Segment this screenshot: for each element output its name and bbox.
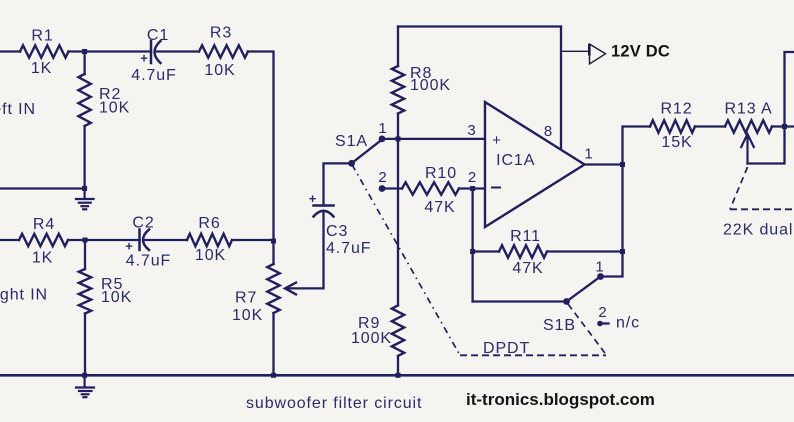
S1B pole contact <box>563 298 570 305</box>
S1B n/c contact 2 <box>597 321 603 327</box>
wire R11 right to output branch <box>547 250 623 252</box>
resistor R9 <box>392 305 404 356</box>
12V DC tap line <box>561 50 589 52</box>
wire C2 to R6 <box>145 239 187 241</box>
svg-text:47K: 47K <box>512 260 543 277</box>
svg-text:4.7uF: 4.7uF <box>126 253 171 270</box>
wire R12 to R13 <box>695 125 725 127</box>
S1A contact 2 <box>379 185 386 192</box>
capacitor C2 <box>140 230 150 251</box>
S1B contact 1 <box>597 273 604 280</box>
svg-text:Right IN: Right IN <box>0 287 48 304</box>
wire R6 to node <box>232 239 274 241</box>
dashed DPDT link S1B <box>568 304 606 355</box>
node junction 1 R8/R9 <box>396 136 401 141</box>
svg-text:R12: R12 <box>660 101 692 118</box>
wire node 1 to op-amp pin 3 <box>382 138 485 140</box>
svg-text:100K: 100K <box>351 330 392 347</box>
node junction R7 bus <box>271 373 276 378</box>
svg-text:C3: C3 <box>326 223 348 240</box>
wire R5 top stub <box>84 240 86 269</box>
svg-text:+: + <box>309 191 318 206</box>
node junction R5 bus <box>82 373 87 378</box>
svg-text:n/c: n/c <box>616 315 640 332</box>
wire R8 bottom to node 1 and down to R9 <box>397 114 399 306</box>
dashed link to R13 B <box>730 208 794 210</box>
node junction R4/R5 <box>83 238 88 243</box>
wire op-amp pin 8 <box>560 27 562 151</box>
svg-text:10K: 10K <box>99 100 130 117</box>
switch S1B lever <box>567 277 601 302</box>
svg-text:1K: 1K <box>32 250 53 267</box>
svg-text:3: 3 <box>467 122 476 139</box>
svg-text:R7: R7 <box>235 290 257 307</box>
wire R10 to op-amp pin 2 <box>459 187 485 189</box>
svg-text:1K: 1K <box>31 60 52 77</box>
svg-text:8: 8 <box>544 123 553 140</box>
wire right input <box>0 239 19 241</box>
wire S1B pole to feedback branch <box>473 300 567 302</box>
svg-text:IC1A: IC1A <box>496 152 535 169</box>
node junction R1/R2 <box>82 49 87 54</box>
svg-text:R11: R11 <box>510 228 541 245</box>
op-amp U1 IC1A triangle <box>485 102 585 227</box>
svg-text:1: 1 <box>378 120 387 137</box>
svg-text:1: 1 <box>595 259 604 276</box>
svg-text:S1A: S1A <box>335 133 368 150</box>
wire R2 bottom <box>83 126 85 189</box>
svg-text:R3: R3 <box>210 25 232 42</box>
wire R7 bottom <box>272 313 274 375</box>
op-amp minus sign <box>491 187 501 189</box>
wire R5 bottom <box>84 314 86 376</box>
svg-text:100K: 100K <box>410 77 451 94</box>
node junction output <box>620 162 625 167</box>
svg-text:1: 1 <box>584 146 593 163</box>
ground G2 <box>76 375 94 397</box>
resistor R11 <box>499 245 547 257</box>
svg-text:C1: C1 <box>147 27 169 44</box>
S1A contact 1 <box>379 136 386 143</box>
switch S1A lever <box>352 140 382 164</box>
wire C3 top to S1A pole <box>324 163 352 205</box>
wire op-amp output <box>585 163 623 165</box>
resistor R6 <box>187 234 232 246</box>
node junction ground rail <box>82 186 87 191</box>
potentiometer R7 <box>267 264 279 313</box>
potentiometer R13 A <box>725 120 772 132</box>
wire R9 bottom <box>397 356 399 375</box>
svg-text:2: 2 <box>468 169 477 186</box>
resistor R3 <box>199 45 248 57</box>
svg-text:10K: 10K <box>101 289 132 306</box>
svg-text:+: + <box>125 239 134 254</box>
capacitor C3 <box>314 206 334 217</box>
wire C3 bottom to R7 wiper <box>288 212 324 288</box>
capacitor C1 <box>151 41 161 63</box>
svg-text:10K: 10K <box>204 62 235 79</box>
svg-text:2: 2 <box>598 304 607 321</box>
R7 wiper arrowhead <box>285 283 296 295</box>
12V DC arrow base bar <box>588 44 591 56</box>
svg-text:12V DC: 12V DC <box>611 43 670 61</box>
node junction R13 right <box>782 124 787 129</box>
svg-text:C2: C2 <box>132 215 154 232</box>
ground bus bottom <box>0 374 794 377</box>
wire supply rail top <box>398 25 561 27</box>
dashed DPDT box bottom <box>460 354 606 356</box>
svg-text:2: 2 <box>378 169 387 186</box>
svg-text:R13 A: R13 A <box>724 101 772 118</box>
svg-text:subwoofer filter circuit: subwoofer filter circuit <box>246 395 422 412</box>
resistor R10 <box>402 182 459 194</box>
svg-text:S1B: S1B <box>543 317 576 334</box>
node junction R11 left <box>470 249 475 254</box>
wire left input top <box>0 50 20 52</box>
S1A pole contact <box>348 160 355 167</box>
wire C1 to R3 <box>157 50 200 52</box>
svg-text:it-tronics.blogspot.com: it-tronics.blogspot.com <box>466 390 655 409</box>
svg-text:+: + <box>140 51 149 66</box>
wire output down to S1B <box>601 165 623 277</box>
ground G1 <box>76 189 94 210</box>
wire to R11 left <box>473 250 499 252</box>
wire top right corner <box>748 52 794 164</box>
svg-text:10K: 10K <box>195 247 226 264</box>
wire input ground rail <box>0 187 85 189</box>
R13 wiper with arrowhead <box>741 134 754 164</box>
svg-text:R1: R1 <box>31 28 53 45</box>
svg-text:15K: 15K <box>661 134 692 151</box>
resistor R5 <box>79 269 91 314</box>
resistor R4 <box>19 234 68 246</box>
node junction R11 right <box>620 249 625 254</box>
wire R8 top stub <box>397 27 399 67</box>
wire R3 to corner down to R7 <box>248 52 274 265</box>
svg-text:4.7uF: 4.7uF <box>131 67 176 84</box>
dashed link R13 wiper <box>730 167 748 209</box>
svg-text:47K: 47K <box>424 199 455 216</box>
12V DC arrow symbol <box>590 44 606 64</box>
svg-text:R6: R6 <box>198 215 220 232</box>
svg-text:10K: 10K <box>232 307 263 324</box>
svg-text:22K dual: 22K dual <box>723 222 793 239</box>
svg-text:Left IN: Left IN <box>0 101 36 118</box>
resistor R12 <box>650 120 695 132</box>
svg-text:R4: R4 <box>33 216 55 233</box>
svg-text:+: + <box>492 132 502 149</box>
wire S1A contact 2 to R10 <box>382 187 402 189</box>
resistor R2 <box>78 74 90 126</box>
node junction pin2 feedback <box>470 186 475 191</box>
resistor R1 <box>20 45 69 57</box>
node junction R6/R7 <box>271 239 276 244</box>
wire R4 to C2 <box>68 239 140 241</box>
wire n/c stub <box>600 322 609 324</box>
svg-text:R10: R10 <box>425 165 457 182</box>
node junction R9 bus <box>396 373 401 378</box>
wire R13 right to edge node <box>772 125 794 127</box>
wire output up to R12 <box>623 127 651 165</box>
wire R2 top stub <box>83 52 85 75</box>
dashed DPDT link S1A to box <box>352 165 460 356</box>
wire feedback left branch <box>471 189 473 302</box>
wire R1 to C1 <box>69 50 152 52</box>
svg-text:DPDT: DPDT <box>483 340 530 357</box>
svg-text:4.7uF: 4.7uF <box>326 240 371 257</box>
resistor R8 <box>392 66 404 114</box>
